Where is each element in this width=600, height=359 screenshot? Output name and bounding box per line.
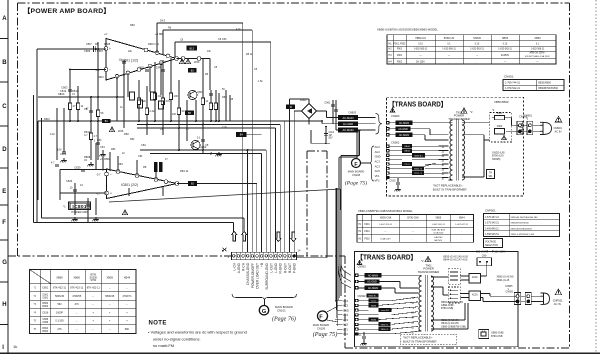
svg-text:C826: C826: [66, 179, 73, 183]
svg-text:R820 2.2k: R820 2.2k: [148, 43, 160, 46]
svg-text:D901: D901: [300, 98, 307, 102]
svg-text:−: −: [109, 68, 111, 72]
bus label tag: [102, 119, 111, 123]
svg-text:AC3: AC3: [343, 313, 349, 317]
connector CN903 lower pins: [355, 274, 359, 290]
svg-text:+: +: [110, 192, 112, 196]
svg-text:4796/55: 4796/55: [72, 295, 82, 298]
wire bridge bottom: [308, 119, 310, 125]
wire mid verticals extra: [96, 90, 230, 180]
svg-text:under no-signal conditions.: under no-signal conditions.: [153, 337, 201, 342]
not replaceable note lower: [401, 334, 457, 345]
svg-text:4.7: 4.7: [94, 134, 98, 138]
svg-text:←: ←: [476, 61, 478, 63]
svg-text:XB44: XB44: [404, 146, 410, 148]
selector plug box 2: [448, 287, 460, 303]
brace to trans board connector: [376, 114, 383, 135]
svg-text:XB44: XB44: [371, 320, 377, 322]
connector CN902 labels: [375, 145, 381, 182]
label CN903 upper: [390, 108, 400, 118]
svg-text:C8: C8: [84, 107, 88, 111]
svg-text:XB55 AUS/XB44 AUS: XB55 AUS/XB44 AUS: [511, 227, 533, 230]
resistor R831: [214, 103, 217, 110]
svg-text:G: G: [2, 260, 7, 266]
capacitor C829: [81, 169, 85, 171]
svg-text:B790-CN8: B790-CN8: [407, 217, 419, 220]
svg-text:XB90-CN8/B790-CN8/SS530/XB44: XB90-CN8/B790-CN8/SS530/XB44 MODEL: [358, 209, 413, 213]
capacitor C809: [122, 61, 126, 63]
svg-text:0.15: 0.15: [475, 43, 480, 45]
svg-text:1-558-945-51: 1-558-945-51: [485, 234, 500, 236]
wires secondary pins lower: [358, 297, 418, 334]
svg-text:R84 1k: R84 1k: [180, 169, 189, 173]
svg-text:C82: C82: [141, 143, 146, 147]
connector block external lower 1: [514, 293, 521, 305]
voltage selector block 2: [460, 291, 480, 301]
connector block external upper: [517, 121, 523, 134]
op-amp IC801 1/2 bottom edge pins: [115, 61, 163, 78]
wire output rail long: [109, 189, 340, 210]
svg-text:XB90/B790/SS530: XB90/B790/SS530: [538, 87, 559, 90]
brace under connector: [232, 294, 297, 301]
svg-text:←: ←: [92, 295, 95, 298]
svg-text:SELECTOR: SELECTOR: [485, 244, 498, 247]
ground 5: [92, 217, 98, 221]
board border left: [17, 3, 19, 256]
warning triangle AC IN lower: [555, 289, 562, 295]
resistor R809: [76, 103, 79, 110]
svg-text:←: ←: [126, 303, 129, 306]
svg-text:476: 476: [57, 328, 62, 331]
tap numbers upper: [441, 146, 444, 181]
page scan edge: [595, 0, 597, 352]
svg-text:EXCEPT AEG-2.5A 250V: EXCEPT AEG-2.5A 250V: [525, 55, 550, 58]
svg-text:F901: F901: [397, 49, 403, 51]
svg-text:CN902: CN902: [358, 294, 367, 298]
svg-text:10k: 10k: [158, 94, 163, 98]
resistor R819: [153, 93, 156, 100]
capacitor C817: [201, 139, 205, 141]
svg-text:4.7k: 4.7k: [236, 28, 241, 31]
svg-text:MAIN BOARD: MAIN BOARD: [348, 170, 365, 174]
svg-text:0.15: 0.15: [418, 43, 423, 45]
svg-text:4.7: 4.7: [84, 133, 88, 137]
harness labels lower: [343, 299, 349, 336]
note block: [148, 321, 247, 349]
svg-text:GND: GND: [375, 155, 381, 159]
wire mid rail A: [140, 149, 266, 151]
svg-text:XB44: XB44: [124, 276, 131, 280]
svg-text:L-CH: L-CH: [232, 262, 236, 270]
wire opamp1 minus input: [69, 69, 106, 71]
svg-text:1-406-845-11: 1-406-845-11: [485, 228, 499, 230]
tap numbers lower: [411, 297, 414, 334]
transformer T901 lower: [418, 275, 434, 332]
reference tags vertical pair: [154, 162, 162, 172]
svg-text:A-GND: A-GND: [237, 262, 241, 273]
svg-text:F901, F902: F901, F902: [394, 43, 406, 45]
svg-text:F: F: [354, 162, 357, 168]
connector block external upper 2: [523, 121, 533, 134]
label AC IN lower: [553, 299, 563, 307]
svg-text:R-CH: R-CH: [242, 262, 246, 271]
label models FR lower: [441, 301, 463, 310]
svg-text:R804: R804: [42, 330, 48, 333]
svg-text:110-120V: 110-120V: [495, 249, 506, 253]
svg-text:5806/45: 5806/45: [55, 295, 65, 298]
wires primary upper: [390, 123, 449, 140]
svg-text:C806: C806: [60, 152, 67, 156]
svg-text:CHASSIS-GND: CHASSIS-GND: [246, 262, 250, 285]
svg-text:F: F: [319, 315, 323, 321]
wire bus 2: [137, 124, 280, 126]
transformer T901 upper: [449, 119, 465, 181]
svg-text:←: ←: [126, 287, 129, 290]
wires secondary-side pins upper: [390, 146, 449, 178]
svg-text:R-GND: R-GND: [279, 262, 283, 273]
wire opamp2 upper: [60, 170, 107, 201]
svg-text:(Page 75): (Page 75): [313, 331, 338, 338]
net tags AC upper board: [396, 121, 413, 137]
svg-text:W26: W26: [118, 129, 124, 133]
svg-text:CM901: CM901: [524, 115, 533, 118]
svg-text:XB50/XB60: XB50/XB60: [494, 100, 509, 104]
svg-text:L-GND: L-GND: [274, 262, 278, 273]
voltage selector label: [484, 239, 503, 248]
svg-text:←: ←: [448, 61, 450, 63]
svg-text:←: ←: [412, 238, 414, 240]
svg-text:B790-CNB: B790-CNB: [491, 335, 503, 338]
label CN903 lower: [357, 261, 366, 269]
svg-text:+5 888: +5 888: [155, 32, 164, 36]
svg-text:1-407-627-11: 1-407-627-11: [455, 224, 469, 226]
svg-text:AC2: AC2: [343, 299, 349, 303]
svg-text:33P: 33P: [156, 66, 161, 70]
svg-text:AC-MAIN: AC-MAIN: [368, 274, 378, 277]
wire mid rail B: [150, 153, 262, 155]
svg-text:+B: +B: [260, 263, 264, 267]
wire opamp2 output: [177, 184, 257, 253]
svg-text:8TK-422-11: 8TK-422-11: [53, 287, 67, 290]
svg-text:BUILT IN TRANSFORMER: BUILT IN TRANSFORMER: [433, 188, 467, 192]
capacitor C823: [73, 189, 77, 191]
svg-text:1.5k: 1.5k: [258, 80, 263, 83]
fuse box upper: [490, 109, 512, 142]
label T901 lower: [418, 264, 440, 274]
svg-text:AC2: AC2: [375, 150, 381, 154]
signal arrows down: [276, 232, 296, 242]
wire from connector to harness: [295, 190, 327, 259]
svg-text:8A 250V: 8A 250V: [434, 239, 442, 242]
model tags lower board: [367, 294, 392, 332]
svg-text:+C R88A: +C R88A: [100, 157, 111, 161]
svg-text:AC-MAIN: AC-MAIN: [343, 116, 354, 120]
svg-text:XB50 B.L: XB50 B.L: [381, 310, 390, 312]
svg-text:MAIN BOARD: MAIN BOARD: [313, 323, 330, 327]
resistor R817: [145, 108, 148, 115]
op-amp IC801 1/2: [106, 39, 177, 81]
svg-text:AC2: AC2: [375, 145, 381, 149]
svg-text:XB90-US: XB90-US: [415, 36, 426, 40]
capacitor C805: [89, 110, 93, 112]
svg-text:+C: +C: [104, 32, 108, 36]
capacitor C825: [86, 204, 90, 206]
svg-text:2.2k: 2.2k: [150, 109, 156, 113]
svg-text:←: ←: [92, 328, 95, 331]
svg-text:CN101: CN101: [277, 309, 286, 313]
warning triangle amp 3: [122, 210, 128, 215]
svg-text:←: ←: [109, 303, 112, 306]
svg-text:Q801: Q801: [197, 90, 204, 94]
svg-text:←: ←: [461, 231, 463, 233]
svg-text:BUILT IN TRANSFORMER: BUILT IN TRANSFORMER: [403, 340, 437, 344]
value labels cluster top-left: [60, 23, 164, 111]
svg-text:F: F: [2, 220, 6, 226]
svg-text:C803: C803: [61, 86, 68, 90]
wire selector up: [481, 263, 516, 302]
svg-text:2A250V: 2A250V: [501, 54, 510, 57]
svg-text:XB50/XB60: XB50/XB60: [538, 82, 552, 85]
capacitor C821: [96, 142, 100, 144]
fuse table 2: [357, 215, 474, 243]
voltage selector block 1: [460, 274, 480, 284]
svg-text:AC-GND: AC-GND: [343, 122, 353, 126]
svg-text:(Page 75): (Page 75): [345, 180, 367, 187]
svg-text:C911: C911: [355, 333, 362, 337]
svg-text:CN109: CN109: [317, 327, 326, 331]
svg-text:XB55 G MX/XB44 G MX: XB55 G MX/XB44 G MX: [511, 234, 535, 236]
resistor R815: [137, 98, 140, 105]
svg-text:C: C: [2, 104, 7, 110]
svg-text:TH: TH: [489, 173, 492, 175]
svg-text:R83: R83: [111, 148, 116, 151]
output tag: [188, 181, 197, 186]
svg-text:R8 1k: R8 1k: [246, 53, 253, 56]
svg-text:XB55 AS 2A7/XB44 AS 2A7: XB55 AS 2A7/XB44 AS 2A7: [511, 216, 539, 219]
svg-text:R83: R83: [222, 95, 227, 99]
svg-text:←: ←: [92, 303, 95, 306]
board border lower vertical: [344, 256, 346, 348]
svg-text:AC2: AC2: [343, 304, 349, 308]
svg-text:100: 100: [174, 94, 179, 98]
CNP501 table: [484, 209, 560, 237]
svg-text:• Voltages and waveforms are d: • Voltages and waveforms are dc with res…: [148, 329, 247, 334]
svg-text:B-OUT: B-OUT: [288, 263, 292, 273]
wires secondary out lower: [431, 277, 468, 329]
svg-text:AC03: AC03: [472, 294, 478, 297]
svg-text:1-575-467-21: 1-575-467-21: [485, 217, 500, 219]
svg-text:F901: F901: [397, 55, 403, 57]
svg-text:XB50 #1: XB50 #1: [381, 324, 390, 326]
net tags AC lower board: [365, 273, 382, 290]
svg-text:VF2: VF2: [343, 332, 348, 336]
svg-text:C8 1/50: C8 1/50: [218, 38, 227, 41]
ground 3: [99, 152, 105, 156]
resistor R805: [68, 103, 71, 110]
wire feedback loop 1: [157, 23, 243, 252]
svg-text:XB60: XB60: [534, 36, 541, 40]
svg-text:XB90-CN8: XB90-CN8: [380, 217, 392, 220]
ground 2: [87, 162, 93, 166]
ground 6: [215, 152, 221, 156]
svg-text:AC02: AC02: [472, 276, 478, 279]
svg-text:220: 220: [172, 113, 177, 116]
svg-text:C910: C910: [389, 179, 396, 183]
svg-text:560: 560: [57, 303, 62, 306]
selector plug box 1: [448, 269, 460, 285]
CN901 table: [503, 75, 564, 91]
svg-text:NOTE: NOTE: [149, 321, 167, 327]
svg-text:F901: F901: [364, 224, 370, 226]
capacitor C827: [55, 164, 59, 166]
svg-text:XB55: XB55: [435, 217, 442, 220]
connector CN902 lower pins: [355, 299, 359, 335]
thermal fuse upper: [495, 125, 507, 140]
not replaceable note upper: [433, 184, 467, 192]
svg-text:CM901: CM901: [554, 126, 563, 130]
wires fuse to CN901: [490, 118, 520, 132]
svg-text:AC3: AC3: [375, 160, 381, 164]
svg-text:AC-MAIN: AC-MAIN: [399, 134, 409, 137]
resistor R811: [89, 133, 92, 140]
svg-text:VF2: VF2: [375, 179, 380, 183]
svg-text:100: 100: [57, 148, 62, 152]
capacitor C811: [145, 69, 149, 71]
svg-text:R82: R82: [130, 23, 135, 27]
pin marker near connector: [222, 248, 226, 252]
svg-text:H: H: [2, 302, 6, 308]
svg-text:XB50 #1: XB50 #1: [381, 329, 390, 331]
svg-text:E: E: [2, 189, 6, 195]
wire feedback loop 2: [163, 30, 252, 252]
svg-text:-0.7: -0.7: [96, 173, 101, 177]
value labels cluster opamp2: [66, 139, 189, 187]
svg-text:XB90/B790/SS530: XB90/B790/SS530: [511, 223, 530, 225]
svg-text:POWER AMP: POWER AMP: [71, 210, 88, 214]
svg-text:R8: R8: [143, 165, 147, 169]
svg-text:AC-MAIN: AC-MAIN: [343, 128, 354, 132]
board border jog verticals: [306, 151, 308, 256]
svg-text:1000P: 1000P: [56, 311, 64, 314]
svg-text:1-407-703-11: 1-407-703-11: [379, 224, 393, 226]
label T901 upper: [448, 111, 470, 121]
svg-text:R801: R801: [44, 118, 50, 121]
svg-text:L-OUT: L-OUT: [269, 263, 273, 273]
svg-text:(Page 76): (Page 76): [272, 316, 296, 323]
brace AC lower board: [338, 262, 351, 288]
svg-text:56K: 56K: [125, 328, 130, 331]
grid row letters: [2, 16, 7, 351]
svg-text:CN901:: CN901:: [504, 75, 514, 79]
svg-text:AFB GN 250V~: AFB GN 250V~: [530, 52, 547, 55]
warning triangle trans upper: [461, 108, 473, 114]
svg-text:B790-CNB): B790-CNB): [441, 307, 453, 310]
svg-text:5806/45: 5806/45: [105, 295, 115, 298]
svg-text:AC-MAIN: AC-MAIN: [368, 287, 378, 290]
board border middle horizontal: [8, 255, 345, 257]
wire vertical 57: [57, 108, 64, 160]
brace CN902: [369, 146, 374, 181]
wire opamp1 output: [177, 57, 211, 90]
svg-text:←: ←: [412, 224, 414, 226]
wire bundle to connector: [248, 121, 285, 252]
svg-text:F902: F902: [397, 61, 403, 63]
svg-text:C801: C801: [42, 296, 48, 299]
reference tag B3: [188, 68, 197, 72]
diode D803: [151, 92, 156, 100]
wire verticals below opamp2: [75, 183, 163, 222]
svg-text:CN903: CN903: [348, 111, 357, 115]
resistor R827: [201, 98, 204, 105]
svg-text:5A 125V: 5A 125V: [416, 60, 425, 63]
svg-text:XB50: XB50: [502, 36, 509, 40]
svg-text:R84: R84: [118, 162, 123, 166]
label GND2 models upper: [492, 152, 505, 161]
wire harness to lower board: [338, 130, 360, 301]
svg-text:AC5: AC5: [375, 169, 381, 173]
wire input rail: [37, 48, 106, 222]
wire to page ref G: [264, 301, 266, 306]
capacitor C819: [62, 151, 66, 153]
svg-text:F901: F901: [364, 231, 370, 233]
reference tag B13: [187, 46, 198, 51]
wires primary lower: [358, 275, 418, 293]
svg-text:CN903: CN903: [391, 114, 400, 118]
signal arrows up: [232, 232, 247, 242]
svg-text:-0.1: -0.1: [95, 68, 100, 72]
op-amp IC801 1/2 output pin: [175, 57, 179, 61]
ruler line: [7, 0, 9, 353]
svg-text:XB44: XB44: [459, 217, 466, 220]
svg-text:B790-US: B790-US: [444, 36, 455, 40]
svg-text:←: ←: [76, 328, 79, 331]
svg-text:CNP501: CNP501: [553, 299, 563, 303]
svg-text:←: ←: [76, 311, 79, 314]
resistor R823: [169, 93, 172, 100]
wire bus 3: [137, 127, 276, 129]
svg-text:XB50 #1: XB50 #1: [414, 169, 423, 171]
svg-text:C901: C901: [324, 101, 331, 105]
svg-text:B13: B13: [189, 46, 194, 50]
svg-text:-0.7: -0.7: [96, 192, 101, 196]
wire main bus: [38, 120, 338, 124]
warning triangle AC IN upper: [555, 116, 562, 122]
page reference F upper: [345, 159, 367, 187]
resistor R829: [209, 103, 212, 110]
svg-text:←: ←: [76, 320, 79, 323]
svg-text:C84: C84: [138, 155, 143, 158]
svg-text:VF1: VF1: [375, 174, 380, 178]
wire harness signal fan: [335, 301, 342, 334]
ground 4: [71, 217, 77, 221]
svg-text:Q802: Q802: [200, 145, 207, 149]
svg-text:470: 470: [75, 303, 80, 306]
IC801 part label: [63, 202, 91, 214]
top connector box lower board: [477, 256, 492, 266]
svg-text:1-632-563-11: 1-632-563-11: [498, 49, 512, 51]
svg-text:C816: C816: [42, 311, 49, 314]
label selector models: [497, 276, 514, 282]
svg-text:50V: 50V: [329, 138, 334, 140]
svg-text:VF1: VF1: [343, 327, 348, 331]
svg-text:4.7: 4.7: [51, 161, 55, 165]
thermo box upper: [487, 170, 495, 179]
wire tag link: [247, 133, 262, 135]
svg-text:1-632-563-11: 1-632-563-11: [470, 49, 484, 51]
svg-text:IC801: IC801: [72, 204, 87, 210]
wire F to brace: [360, 162, 369, 164]
capacitor C813: [161, 69, 165, 71]
